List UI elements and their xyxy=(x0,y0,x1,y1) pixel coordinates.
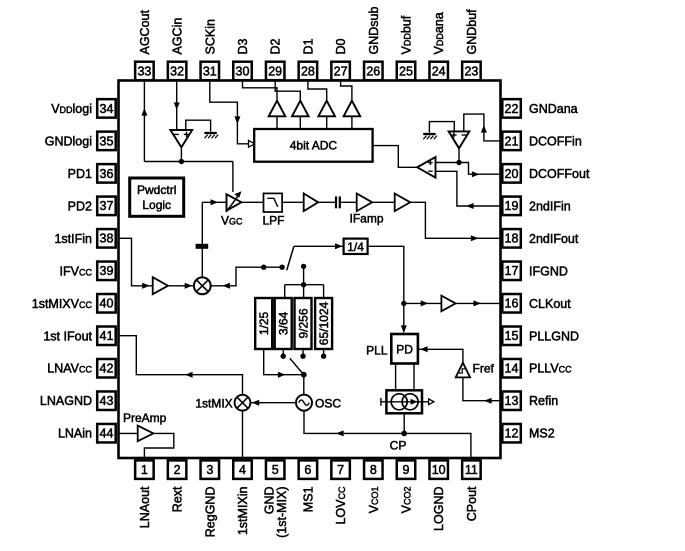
charge pump block xyxy=(381,390,434,413)
wire DCOFF buffer - input to 2ndIFin pin19 xyxy=(436,171,502,206)
divider 9/256 block xyxy=(295,298,312,349)
svg-text:42: 42 xyxy=(100,362,114,376)
svg-text:CLKout: CLKout xyxy=(529,297,571,311)
svg-text:LNAout: LNAout xyxy=(138,486,152,528)
arrow right into DCOFFout pin20 xyxy=(472,171,480,177)
wire 2ndMIX output up to VGC input xyxy=(201,202,203,277)
wire IFamp output to 2ndIFout pin18 xyxy=(410,202,501,238)
wire switch common to 1/4 divider xyxy=(294,245,344,247)
svg-text:DCOFFin: DCOFFin xyxy=(529,134,582,148)
pin 3 RegGND (bottom) xyxy=(201,460,220,537)
svg-text:4bit ADC: 4bit ADC xyxy=(290,139,338,153)
svg-text:1/25: 1/25 xyxy=(257,311,271,335)
pin 11 CPout (bottom) xyxy=(462,460,481,521)
buffer amplifier 1stIF input xyxy=(153,277,168,294)
svg-text:D0: D0 xyxy=(334,38,348,54)
wire D2 pin to ADC buffer 2 xyxy=(275,81,300,101)
svg-text:AGCout: AGCout xyxy=(138,10,152,55)
wire AGCin pin32 vertical xyxy=(176,81,178,130)
pin 18 2ndIFout (right) xyxy=(502,229,579,248)
arrow right into 2ndIFout pin18 xyxy=(471,235,479,241)
arrow right into 2ndMIX xyxy=(185,283,193,289)
pin 30 D3 (top) xyxy=(233,38,252,80)
arrow down into PD xyxy=(401,325,407,333)
svg-text:LNAVCC: LNAVCC xyxy=(47,362,92,376)
mixer 2ndMIX xyxy=(194,277,211,294)
svg-text:10: 10 xyxy=(432,463,446,477)
capacitor blocking bar on 2ndMIX output xyxy=(196,244,209,249)
svg-text:VCO1: VCO1 xyxy=(367,487,381,514)
wire Fref to PD input xyxy=(418,349,463,362)
node contact under 9/256 xyxy=(300,354,305,359)
node divider 1/25 tap junction xyxy=(261,265,266,270)
wire AGC control down to VGC xyxy=(232,162,234,193)
svg-text:IFGND: IFGND xyxy=(529,264,568,278)
wire CLK buffer to CLKout pin16 xyxy=(456,302,501,304)
wire divider bus horizontal xyxy=(285,284,324,286)
svg-text:26: 26 xyxy=(366,64,380,78)
divider 1/4 block xyxy=(344,239,368,254)
svg-text:5: 5 xyxy=(272,463,279,477)
svg-text:17: 17 xyxy=(505,264,519,278)
svg-text:3/64: 3/64 xyxy=(277,311,291,335)
wire buffer 4 to ADC top xyxy=(351,116,353,129)
svg-text:44: 44 xyxy=(100,427,114,441)
svg-text:Fref: Fref xyxy=(473,361,495,375)
wire OSC to 1stMIX xyxy=(250,402,296,404)
wire LPF to IF buffer 1 xyxy=(282,201,304,203)
svg-text:LNAin: LNAin xyxy=(58,427,92,441)
svg-text:43: 43 xyxy=(100,394,114,408)
svg-text:MS2: MS2 xyxy=(529,427,555,441)
pin 37 PD2 (left) xyxy=(68,197,116,216)
wire PD to charge pump (left) xyxy=(395,364,397,391)
svg-text:28: 28 xyxy=(301,64,315,78)
wire PD to charge pump (right) xyxy=(413,364,415,391)
svg-text:21: 21 xyxy=(505,134,519,148)
pin 14 PLLVCC (right) xyxy=(502,359,572,378)
wire divider 3/64 bottom stub xyxy=(282,349,284,354)
svg-text:37: 37 xyxy=(100,199,114,213)
arrow right into input buffer xyxy=(142,283,150,289)
wire 1/4 output to PD xyxy=(368,246,404,332)
pin 27 D0 (top) xyxy=(331,38,350,80)
arrow left into 2ndMIX xyxy=(222,283,230,289)
pin 19 2ndIFin (right) xyxy=(502,197,570,216)
svg-text:PLLGND: PLLGND xyxy=(529,329,579,343)
svg-text:PD: PD xyxy=(396,342,413,356)
pin 33 AGCout (top) xyxy=(135,10,154,81)
buffer amplifier CLKout xyxy=(441,296,455,312)
mixer 1stMIX xyxy=(235,395,251,411)
node CP junction xyxy=(401,431,407,437)
wire buffer2 to buffer3 xyxy=(372,201,395,203)
svg-text:29: 29 xyxy=(268,64,282,78)
wire VGC to LPF xyxy=(241,201,263,203)
wire junction to DCOFFout pin20 xyxy=(459,163,501,175)
wire D3 pin to ADC buffer 1 xyxy=(243,81,278,101)
wire into VGC amp xyxy=(202,201,226,203)
arrow diagonal gain control through VGC xyxy=(226,191,241,212)
svg-text:1stMIXin: 1stMIXin xyxy=(236,486,250,535)
pin 7 LOVCC (bottom) xyxy=(331,460,350,524)
wire capacitor to IF buffer 2 xyxy=(340,201,357,203)
ground (DCOFF comparator + input) xyxy=(423,133,435,135)
svg-text:D3: D3 xyxy=(236,38,250,54)
svg-text:40: 40 xyxy=(100,297,114,311)
wire CLK junction to CLK buffer xyxy=(404,302,442,304)
svg-text:D1: D1 xyxy=(301,38,315,54)
svg-text:4: 4 xyxy=(239,463,246,477)
pin 15 PLLGND (right) xyxy=(502,327,579,346)
svg-text:38: 38 xyxy=(100,232,114,246)
svg-text:7: 7 xyxy=(337,463,344,477)
arrow right into VGC amp xyxy=(211,199,219,205)
node AGC comparator output junction xyxy=(179,159,184,164)
svg-text:20: 20 xyxy=(505,167,519,181)
pin 43 LNAGND (left) xyxy=(40,391,116,410)
pin 39 IFVCC (left) xyxy=(60,262,116,281)
svg-text:LOVCC: LOVCC xyxy=(334,486,348,525)
svg-text:1stIFin: 1stIFin xyxy=(54,232,92,246)
pin 12 MS2 (right) xyxy=(502,424,554,443)
pin 16 CLKout (right) xyxy=(502,294,571,313)
node CLK junction xyxy=(401,301,406,306)
4bit ADC block xyxy=(254,129,372,162)
pin 13 Refin (right) xyxy=(502,391,558,410)
svg-text:MS1: MS1 xyxy=(301,486,315,512)
divider 65/1024 block xyxy=(315,298,332,349)
svg-text:22: 22 xyxy=(505,102,519,116)
pin 8 VCO1 (bottom) xyxy=(364,460,383,513)
svg-text:PLLVCC: PLLVCC xyxy=(529,362,572,376)
wire CP net to OSC xyxy=(304,411,404,434)
arrow left on CP net xyxy=(336,430,344,436)
pin 6 MS1 (bottom) xyxy=(299,460,318,512)
capacitor coupling (series) xyxy=(335,196,337,208)
wire bus stub to divider 9/256 xyxy=(303,285,305,298)
svg-text:CPout: CPout xyxy=(465,486,479,521)
pin 31 SCKin (top) xyxy=(201,19,220,80)
wire AGCout pin33 vertical xyxy=(143,81,145,162)
svg-text:VDDana: VDDana xyxy=(432,12,446,54)
wire charge pump to CP net xyxy=(403,413,405,433)
buffer amplifier ADC input 3 (triangle up) xyxy=(318,101,335,117)
pin 4 1stMIXin (bottom) xyxy=(233,460,252,535)
arrow up on DCOFFin wire xyxy=(481,125,487,133)
svg-text:12: 12 xyxy=(505,427,519,441)
svg-text:36: 36 xyxy=(100,167,114,181)
svg-text:39: 39 xyxy=(100,264,114,278)
svg-text:CP: CP xyxy=(390,438,407,452)
wire Refin pin13 to Fref xyxy=(463,377,501,400)
pin 20 DCOFFout (right) xyxy=(502,164,590,183)
svg-text:1stMIXVCC: 1stMIXVCC xyxy=(32,297,93,311)
wire buffer1 to coupling capacitor xyxy=(318,201,335,203)
svg-text:1: 1 xyxy=(141,463,148,477)
pin 5 GND (1st-MIX) (bottom) xyxy=(263,460,290,537)
svg-text:1st IFout: 1st IFout xyxy=(43,329,92,343)
pin 23 GNDbuf (top) xyxy=(462,9,481,80)
pin 22 GNDana (right) xyxy=(502,99,577,118)
pin 32 AGCin (top) xyxy=(168,18,187,81)
buffer amplifier ADC input 4 (triangle up) xyxy=(344,101,361,117)
arrow down on SCKin wire xyxy=(234,116,240,124)
wire bus stub to divider 65/1024 xyxy=(323,285,325,298)
svg-text:30: 30 xyxy=(236,64,250,78)
node divider bus junction xyxy=(301,282,306,287)
svg-text:13: 13 xyxy=(505,394,519,408)
wire DCOFFin pin21 to comparator - input xyxy=(464,114,501,141)
pin 44 LNAin (left) xyxy=(58,424,116,443)
buffer Fref (triangle up with step glyph) xyxy=(456,363,470,378)
svg-text:32: 32 xyxy=(170,64,184,78)
arrow right into 1/4 divider xyxy=(335,243,343,249)
svg-text:SCKin: SCKin xyxy=(203,19,217,54)
wire LO into 2ndMIX from divider bus xyxy=(211,267,264,286)
pin 9 VCO2 (bottom) xyxy=(397,460,416,513)
pin 35 GNDlogi (left) xyxy=(45,132,116,151)
wire AGC output horizontal net xyxy=(144,161,233,163)
svg-text:AGCin: AGCin xyxy=(171,18,185,55)
arrow right on 1/25 output wire xyxy=(278,372,286,378)
pin 1 LNAout (bottom) xyxy=(135,460,154,528)
svg-text:31: 31 xyxy=(203,64,217,78)
pin 24 VDDana (top) xyxy=(429,12,448,80)
svg-text:GNDsub: GNDsub xyxy=(367,7,381,55)
svg-text:(1st-MIX): (1st-MIX) xyxy=(275,487,289,538)
svg-text:15: 15 xyxy=(505,329,519,343)
svg-text:VGC: VGC xyxy=(221,214,243,228)
arrow left on 2ndIFin wire xyxy=(466,203,474,209)
switch arm (upper selector) xyxy=(287,246,294,270)
op-amp DCOFF comparator xyxy=(449,131,470,148)
pin 40 1stMIXVCC (left) xyxy=(32,294,116,313)
svg-text:Pwdctrl: Pwdctrl xyxy=(137,183,176,197)
wire divider 9/256 bottom stub xyxy=(302,349,304,354)
pin 25 VDDbuf (top) xyxy=(397,15,416,80)
divider 3/64 block xyxy=(275,298,292,349)
svg-text:2ndIFin: 2ndIFin xyxy=(529,199,571,213)
wire AGC comparator + input to ground xyxy=(186,120,211,131)
wire DCOFF comparator + input to ground xyxy=(429,122,454,133)
pin 36 PD1 (left) xyxy=(68,164,116,183)
arrow left on 1st IFout wire xyxy=(185,372,193,378)
svg-text:IFVCC: IFVCC xyxy=(60,264,93,278)
svg-text:VDDlogi: VDDlogi xyxy=(51,102,92,116)
wire bus stub to divider 3/64 xyxy=(284,285,286,298)
op-amp AGC comparator xyxy=(170,130,192,147)
svg-text:GNDbuf: GNDbuf xyxy=(465,9,479,55)
pin 2 Rext (bottom) xyxy=(168,460,187,512)
svg-text:1stMIX: 1stMIX xyxy=(195,397,232,411)
op-amp DCOFF buffer (points left) xyxy=(417,157,435,178)
ADC input open arrowhead xyxy=(249,140,255,147)
node DCOFF output junction xyxy=(456,160,461,165)
svg-text:6: 6 xyxy=(304,463,311,477)
wire junction down to OSC xyxy=(303,375,305,395)
svg-text:16: 16 xyxy=(505,297,519,311)
svg-text:IFamp: IFamp xyxy=(350,211,384,225)
wire D1 pin to ADC buffer 3 xyxy=(308,81,327,101)
arrow up on AGCout wire xyxy=(141,108,147,116)
svg-text:3: 3 xyxy=(206,463,213,477)
wire 1stIFin pin38 to input buffer xyxy=(118,238,153,285)
wire buffer to 2ndMIX xyxy=(168,285,194,287)
svg-text:9/256: 9/256 xyxy=(296,308,310,338)
svg-text:OSC: OSC xyxy=(315,397,341,411)
node contact under 3/64 xyxy=(281,354,286,359)
svg-text:PD2: PD2 xyxy=(68,199,92,213)
svg-text:14: 14 xyxy=(505,362,519,376)
arrow left on Refin wire xyxy=(484,398,492,404)
pin 17 IFGND (right) xyxy=(502,262,568,281)
ground (AGC comparator + input) xyxy=(204,132,216,134)
wire junction to switch contact A xyxy=(264,266,282,268)
arrow left into 1stMIX xyxy=(252,400,260,406)
wire buffer 3 to ADC top xyxy=(326,116,328,129)
svg-text:D2: D2 xyxy=(269,38,283,54)
wire SCKin pin31 to ADC input xyxy=(210,81,251,144)
wire AGC comparator output to junction xyxy=(180,147,182,162)
LPF block xyxy=(264,193,283,212)
node switch contact B xyxy=(301,264,306,269)
pin 42 LNAVCC (left) xyxy=(47,359,115,378)
pin 34 VDDlogi (left) xyxy=(51,99,116,118)
svg-text:34: 34 xyxy=(100,102,114,116)
arrow right into CLKout pin16 xyxy=(473,300,481,306)
arrow down on AGCin wire xyxy=(174,102,180,110)
svg-text:25: 25 xyxy=(399,64,413,78)
svg-text:PD1: PD1 xyxy=(68,167,92,181)
svg-text:VCO2: VCO2 xyxy=(400,487,414,514)
wire D0 pin to ADC buffer 4 xyxy=(341,81,352,101)
svg-text:35: 35 xyxy=(100,134,114,148)
wire contact B down to divider bus xyxy=(303,266,305,284)
svg-text:24: 24 xyxy=(432,64,446,78)
wire 1stMIXin pin4 up to 1stMIX xyxy=(242,411,244,459)
node contact under 65/1024 xyxy=(321,354,326,359)
Pwdctrl Logic block xyxy=(130,178,184,216)
svg-text:33: 33 xyxy=(137,64,151,78)
svg-text:LOGND: LOGND xyxy=(432,487,446,531)
svg-text:41: 41 xyxy=(100,329,114,343)
IC body outline xyxy=(119,81,501,459)
svg-text:PreAmp: PreAmp xyxy=(123,411,167,425)
svg-text:GNDana: GNDana xyxy=(529,102,578,116)
wire divider 1/25 bottom to OSC junction xyxy=(264,349,304,375)
pin 10 LOGND (bottom) xyxy=(429,460,448,531)
svg-text:1/4: 1/4 xyxy=(347,240,364,254)
buffer amplifier IF 1 xyxy=(304,194,319,212)
wire buffer 1 to ADC top xyxy=(276,116,278,129)
svg-text:Logic: Logic xyxy=(142,198,171,212)
svg-text:Rext: Rext xyxy=(171,486,185,512)
buffer amplifier IFamp 2 xyxy=(357,194,373,212)
arrow left into PD xyxy=(420,346,428,352)
svg-text:23: 23 xyxy=(464,64,478,78)
buffer amplifier ADC input 1 (triangle up) xyxy=(269,101,286,117)
wire divider 65/1024 bottom stub xyxy=(323,349,325,354)
pin 26 GNDsub (top) xyxy=(364,7,383,81)
pin 38 1stIFin (left) xyxy=(54,229,115,248)
divider 1/25 block xyxy=(255,298,272,349)
svg-text:18: 18 xyxy=(505,232,519,246)
switch arm (lower selector) xyxy=(290,358,304,374)
svg-text:PLL: PLL xyxy=(366,344,388,358)
svg-text:DCOFFout: DCOFFout xyxy=(529,167,590,181)
wire DCOFF comparator output to junction xyxy=(458,148,460,163)
amplifier VGC variable gain xyxy=(227,194,242,210)
node switch contact A xyxy=(279,265,284,270)
amplifier PreAmp xyxy=(138,426,154,442)
wire junction to DCOFF buffer + input xyxy=(436,162,460,164)
svg-text:19: 19 xyxy=(505,199,519,213)
pin 29 D2 (top) xyxy=(266,38,285,80)
svg-text:2: 2 xyxy=(174,463,181,477)
svg-text:LPF: LPF xyxy=(263,214,285,228)
pin 28 D1 (top) xyxy=(299,38,318,80)
svg-text:Refin: Refin xyxy=(529,394,558,408)
svg-text:27: 27 xyxy=(334,64,348,78)
svg-text:11: 11 xyxy=(465,463,478,477)
wire 1stMIX output to 1st IFout pin41 xyxy=(118,336,243,395)
svg-text:RegGND: RegGND xyxy=(203,487,217,538)
oscillator OSC xyxy=(296,395,312,411)
buffer amplifier IFamp 3 xyxy=(395,194,411,212)
node OSC top junction xyxy=(301,372,307,378)
wire buffer 2 to ADC top xyxy=(299,116,301,129)
svg-text:8: 8 xyxy=(370,463,377,477)
svg-text:9: 9 xyxy=(403,463,410,477)
wire PreAmp output to LNAout pin1 xyxy=(144,433,173,459)
svg-text:VDDbuf: VDDbuf xyxy=(400,15,414,54)
svg-text:GNDlogi: GNDlogi xyxy=(45,134,92,148)
buffer amplifier ADC input 2 (triangle up) xyxy=(292,101,309,117)
svg-text:65/1024: 65/1024 xyxy=(317,301,331,345)
PD block xyxy=(391,334,418,364)
svg-text:2ndIFout: 2ndIFout xyxy=(529,232,579,246)
wire CP net to CPout pin11 xyxy=(404,433,471,459)
pin 21 DCOFFin (right) xyxy=(502,132,582,151)
wire LNAin pin44 to PreAmp xyxy=(118,432,138,434)
pin 41 1st IFout (left) xyxy=(43,327,115,346)
svg-text:LNAGND: LNAGND xyxy=(40,394,92,408)
wire DCOFF buffer output to ADC xyxy=(373,146,418,168)
arrow right on CLK wire xyxy=(421,300,429,306)
